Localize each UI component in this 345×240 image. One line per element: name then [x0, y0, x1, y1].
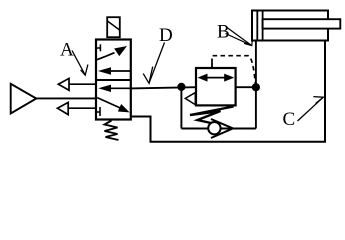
- wire check valve bypass bottom: [181, 128, 256, 130]
- wire check valve bypass right: [255, 87, 257, 128]
- wire top exhaust: [69, 83, 96, 85]
- wire valve bottom out to bottom rail: [131, 41, 325, 142]
- cylinder body: [252, 11, 328, 41]
- arrow A: [72, 51, 85, 76]
- plug bottom-left port: [96, 111, 100, 113]
- arrow B: [227, 28, 252, 46]
- node junction left: [177, 83, 185, 91]
- exhaust triangle bottom: [57, 102, 68, 114]
- piston: [256, 11, 258, 41]
- plug top-left port: [96, 47, 100, 49]
- check valve: [208, 122, 220, 134]
- regulator double arrow: [206, 77, 225, 79]
- wire bottom exhaust: [68, 107, 96, 109]
- exhaust triangle top: [58, 78, 69, 90]
- wire regulator to right node: [236, 86, 256, 88]
- svg-text:C: C: [283, 109, 296, 130]
- air source triangle: [11, 84, 37, 114]
- node junction right: [252, 83, 260, 91]
- valve arrow top horizontal: [111, 70, 131, 72]
- piston rod: [263, 19, 341, 28]
- pressure regulator B box: [196, 68, 236, 105]
- arrow C: [298, 97, 324, 121]
- svg-text:A: A: [60, 40, 74, 61]
- wire cylinder left port: [255, 41, 257, 88]
- spring under valve: [105, 121, 119, 141]
- wire D line valve to regulator: [131, 87, 196, 88]
- wire check valve bypass left: [180, 87, 182, 129]
- valve U1 body: [96, 40, 131, 120]
- wire supply line: [36, 97, 96, 99]
- valve arrow top diagonal: [97, 53, 115, 60]
- regulator exhaust triangle: [185, 93, 195, 105]
- arrow D: [149, 43, 165, 84]
- solenoid box: [107, 17, 120, 37]
- pilot line dashed: [211, 63, 213, 68]
- svg-text:D: D: [159, 25, 173, 46]
- valve arrow bottom horizontal: [111, 87, 131, 89]
- regulator spring: [190, 107, 234, 124]
- svg-text:B: B: [217, 21, 230, 42]
- valve arrow bottom diagonal: [97, 98, 120, 108]
